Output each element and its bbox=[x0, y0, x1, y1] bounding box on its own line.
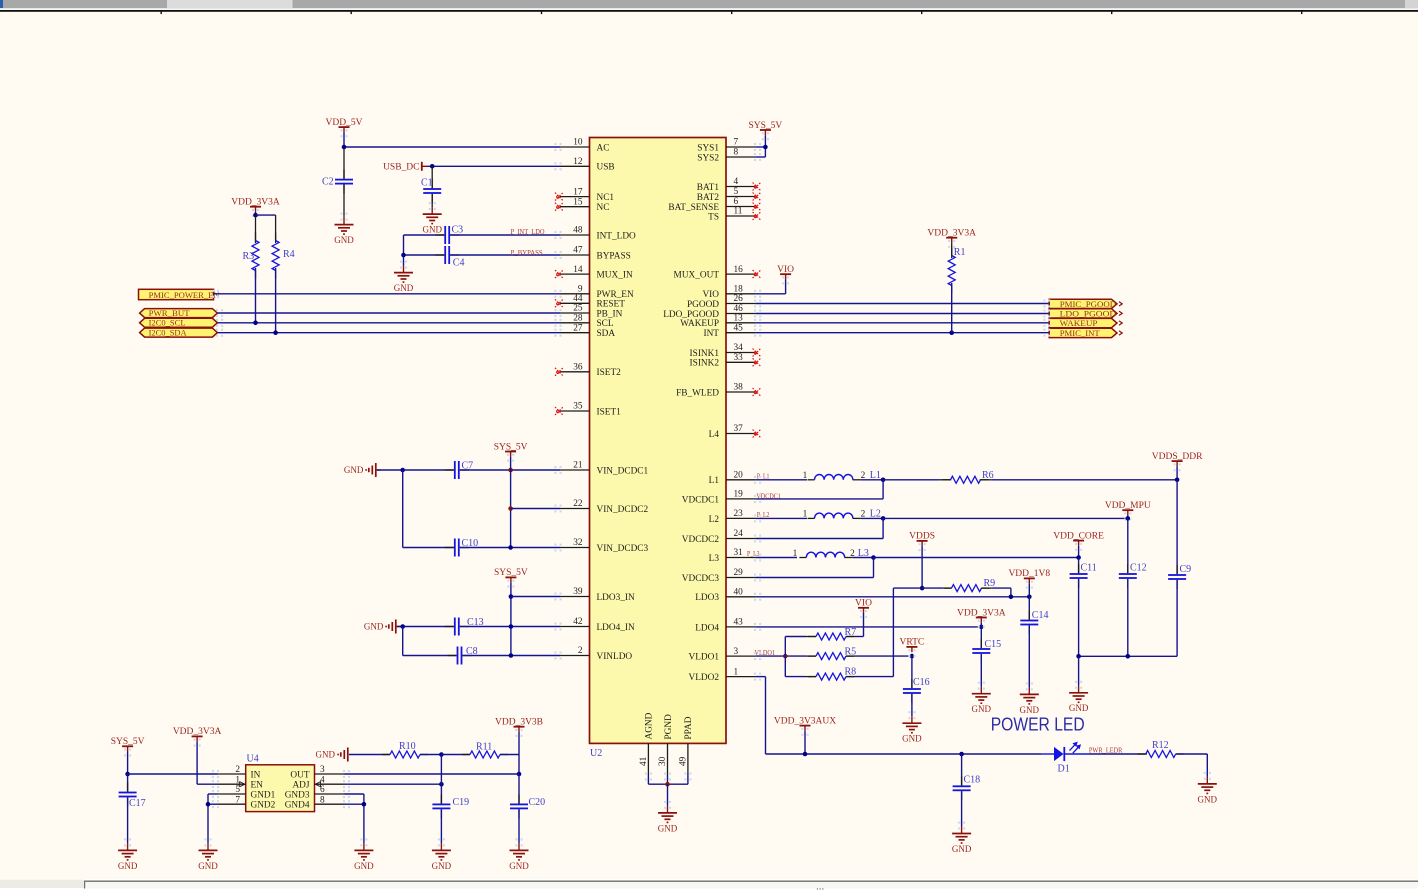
pin 48 INT_LDO bbox=[560, 234, 590, 236]
svg-text:WAKEUP: WAKEUP bbox=[1060, 318, 1098, 328]
wire VDDS_DDR rail bbox=[991, 479, 1177, 481]
svg-text:11: 11 bbox=[734, 207, 743, 217]
wire INT to port bbox=[756, 332, 1050, 334]
wire bbox=[404, 254, 445, 256]
power port VDD_MPU bbox=[1124, 512, 1131, 520]
ground below C16 bbox=[908, 711, 915, 719]
node C4 tap bbox=[401, 253, 406, 258]
wire bbox=[197, 783, 217, 785]
pin 42 LDO4_IN bbox=[560, 626, 590, 628]
wire bbox=[377, 469, 403, 471]
ground below C15 bbox=[978, 682, 985, 690]
no-ERC marker bbox=[753, 270, 761, 278]
wire bbox=[1028, 597, 1030, 620]
svg-text:36: 36 bbox=[573, 363, 583, 373]
svg-text:VINLDO: VINLDO bbox=[597, 652, 633, 662]
svg-text:7: 7 bbox=[235, 795, 240, 805]
svg-text:VDD_5V: VDD_5V bbox=[326, 118, 363, 128]
wire bbox=[403, 655, 457, 657]
svg-text:VDD_3V3A: VDD_3V3A bbox=[231, 198, 280, 208]
pin 49 PPAD bbox=[687, 743, 689, 774]
svg-text:1: 1 bbox=[793, 549, 798, 559]
svg-text:R12: R12 bbox=[1152, 740, 1169, 751]
svg-text:SYS_5V: SYS_5V bbox=[494, 442, 528, 452]
svg-text:LDO4_IN: LDO4_IN bbox=[597, 623, 635, 633]
svg-text:VLDO1: VLDO1 bbox=[689, 653, 720, 663]
pin 18 VIO bbox=[726, 293, 756, 295]
svg-text:I2C0_SCL: I2C0_SCL bbox=[149, 318, 186, 328]
node VIN_DCDC2 bbox=[508, 506, 513, 511]
svg-text:ISET2: ISET2 bbox=[597, 368, 622, 378]
pin 9 PWR_EN bbox=[560, 293, 590, 295]
svg-text:R3: R3 bbox=[243, 251, 255, 262]
wire R12 to ground bbox=[1206, 754, 1208, 777]
wire bbox=[992, 587, 1011, 589]
svg-text:VDD_3V3A: VDD_3V3A bbox=[927, 229, 976, 239]
svg-text:32: 32 bbox=[573, 538, 583, 548]
wire bbox=[1028, 625, 1030, 687]
wire bbox=[785, 676, 806, 678]
wire bbox=[420, 754, 441, 756]
node GND4 bbox=[362, 802, 367, 807]
node LDO4_IN bbox=[509, 624, 514, 629]
svg-text:4: 4 bbox=[734, 177, 739, 187]
svg-text:R4: R4 bbox=[283, 249, 295, 260]
svg-text:L1: L1 bbox=[709, 476, 720, 486]
svg-text:25: 25 bbox=[573, 304, 583, 314]
svg-text:VDDS: VDDS bbox=[909, 532, 935, 542]
power port SYS_5V bbox=[507, 454, 514, 462]
svg-text:GND2: GND2 bbox=[251, 801, 276, 811]
wire bbox=[255, 212, 257, 215]
wire SYS_5V column bbox=[510, 457, 512, 548]
svg-text:L2: L2 bbox=[709, 515, 720, 525]
pin 35 ISET1 bbox=[560, 410, 590, 412]
svg-text:3: 3 bbox=[320, 765, 325, 775]
wire bbox=[275, 215, 277, 243]
svg-text:INT: INT bbox=[704, 329, 720, 339]
svg-text:SYS1: SYS1 bbox=[697, 143, 719, 153]
svg-text:C2: C2 bbox=[322, 176, 334, 187]
svg-text:3: 3 bbox=[734, 647, 739, 657]
wire WAKEUP to port bbox=[756, 322, 1050, 324]
power port VDD_1V8 bbox=[1026, 581, 1033, 589]
svg-text:9: 9 bbox=[578, 285, 583, 295]
ground for C3/C4 bbox=[400, 261, 407, 269]
node GND2 bbox=[206, 802, 211, 807]
wire bbox=[518, 809, 520, 843]
svg-text:EN: EN bbox=[251, 781, 264, 791]
capacitor C13 bbox=[445, 626, 454, 628]
wire R9-R8 connector bbox=[892, 588, 894, 677]
svg-text:R9: R9 bbox=[984, 578, 996, 589]
pin 23 L2 bbox=[726, 517, 756, 519]
port PMIC_INT bbox=[1049, 328, 1117, 337]
svg-text:1: 1 bbox=[803, 510, 808, 520]
svg-text:L2: L2 bbox=[870, 509, 881, 520]
node VIN_DCDC3 bbox=[508, 545, 513, 550]
svg-text:18: 18 bbox=[734, 285, 744, 295]
port LDO_PGOOD bbox=[1049, 309, 1117, 318]
svg-text:BAT_SENSE: BAT_SENSE bbox=[668, 203, 719, 213]
node VRTC bbox=[910, 654, 915, 659]
pin 1 VLDO2 bbox=[726, 676, 756, 678]
svg-text:42: 42 bbox=[573, 617, 583, 627]
wire bbox=[397, 626, 454, 628]
no-ERC marker bbox=[753, 349, 761, 357]
pin 40 LDO3 bbox=[726, 596, 756, 598]
node VDD_3V3AUX bbox=[803, 752, 808, 757]
svg-text:LDO4: LDO4 bbox=[695, 623, 719, 633]
port I2C0_SDA bbox=[140, 328, 218, 337]
svg-text:USB_DC: USB_DC bbox=[383, 163, 419, 173]
no-ERC marker bbox=[555, 203, 563, 211]
pin 3 OUT U4 bbox=[315, 773, 345, 775]
svg-text:1: 1 bbox=[734, 667, 739, 677]
svg-text:GND4: GND4 bbox=[285, 801, 310, 811]
node VDDS_DDR bbox=[1175, 478, 1180, 483]
svg-text:17: 17 bbox=[573, 187, 583, 197]
bottom panel strip bbox=[0, 879, 1418, 894]
wire bbox=[1079, 655, 1178, 657]
svg-text:AGND: AGND bbox=[645, 712, 655, 739]
wire bbox=[893, 587, 943, 589]
svg-text:41: 41 bbox=[639, 756, 649, 766]
node USB_DC bbox=[430, 164, 435, 169]
svg-text:PWR_EN: PWR_EN bbox=[597, 290, 634, 300]
wire VIO pin bbox=[756, 293, 786, 295]
svg-text:PMIC_PGOOD: PMIC_PGOOD bbox=[1060, 299, 1117, 309]
wire bbox=[861, 479, 884, 481]
svg-text:34: 34 bbox=[734, 343, 744, 353]
wire bbox=[961, 754, 963, 785]
svg-text:ISET1: ISET1 bbox=[597, 407, 622, 417]
pin 7 GND2 U4 bbox=[218, 803, 246, 805]
pin 24 VDCDC2 bbox=[726, 538, 756, 540]
svg-text:LDO3_IN: LDO3_IN bbox=[597, 593, 635, 603]
pin 6 GND3 U4 bbox=[315, 793, 345, 795]
wire bbox=[1176, 480, 1178, 574]
power port VDD_3V3AUX bbox=[801, 728, 808, 736]
node R3/R4 top bbox=[253, 213, 258, 218]
svg-text:POWER LED: POWER LED bbox=[991, 713, 1085, 734]
wire bbox=[911, 694, 913, 716]
no-ERC marker bbox=[555, 368, 563, 376]
no-ERC marker bbox=[555, 299, 563, 307]
ground below C2 bbox=[340, 213, 347, 221]
wire bbox=[785, 279, 787, 293]
node C17/IN bbox=[125, 772, 130, 777]
svg-text:BAT2: BAT2 bbox=[697, 193, 720, 203]
wire bbox=[882, 518, 884, 538]
svg-text:2: 2 bbox=[861, 471, 866, 481]
svg-text:C1: C1 bbox=[421, 178, 433, 189]
node SCL/R3 bbox=[253, 321, 258, 326]
wire bbox=[874, 557, 1079, 559]
svg-text:L3: L3 bbox=[709, 554, 720, 564]
svg-text:PB_IN: PB_IN bbox=[597, 309, 623, 319]
wire bbox=[256, 214, 276, 216]
svg-text:GND1: GND1 bbox=[251, 790, 276, 800]
svg-text:SCL: SCL bbox=[597, 319, 614, 329]
wire bbox=[855, 655, 912, 657]
pin 11 TS bbox=[726, 215, 756, 217]
svg-text:VDCDC2: VDCDC2 bbox=[682, 535, 720, 545]
pin 12 USB bbox=[560, 165, 590, 167]
resistor R5 bbox=[806, 655, 816, 657]
wire VINLDO bbox=[463, 655, 561, 657]
power port VDD_3V3A bbox=[978, 620, 985, 628]
svg-text:L1: L1 bbox=[870, 470, 881, 481]
svg-text:R6: R6 bbox=[982, 470, 994, 481]
wire PWR_BUT to PB_IN bbox=[217, 312, 560, 314]
wire bbox=[756, 655, 806, 657]
svg-text:MUX_OUT: MUX_OUT bbox=[674, 271, 720, 281]
svg-text:43: 43 bbox=[734, 618, 744, 628]
pin 47 BYPASS bbox=[560, 254, 590, 256]
svg-text:ADJ: ADJ bbox=[292, 781, 309, 791]
svg-text:1: 1 bbox=[803, 471, 808, 481]
pin 37 L4 bbox=[726, 433, 756, 435]
node ADJ bbox=[439, 782, 444, 787]
wire bbox=[127, 797, 129, 843]
svg-text:NC: NC bbox=[597, 203, 610, 213]
wire bbox=[1089, 753, 1146, 755]
svg-text:R5: R5 bbox=[845, 647, 857, 658]
svg-text:GND3: GND3 bbox=[285, 790, 310, 800]
svg-text:C20: C20 bbox=[529, 797, 546, 808]
svg-text:INT_LDO: INT_LDO bbox=[597, 231, 637, 241]
svg-text:C12: C12 bbox=[1130, 563, 1147, 574]
node SYS bbox=[763, 145, 768, 150]
wire bbox=[1127, 518, 1129, 573]
svg-text:VDD_3V3AUX: VDD_3V3AUX bbox=[774, 716, 836, 726]
wire bbox=[961, 791, 963, 826]
wire bbox=[1078, 656, 1080, 686]
pin 41 AGND bbox=[647, 743, 649, 774]
wire LDO3_IN bbox=[511, 596, 560, 598]
wire bbox=[687, 775, 689, 785]
wire R4 to SDA bbox=[275, 268, 277, 333]
svg-text:37: 37 bbox=[734, 424, 744, 434]
wire bbox=[855, 636, 864, 638]
svg-text:PMIC_INT: PMIC_INT bbox=[1060, 328, 1101, 338]
svg-text:IN: IN bbox=[251, 770, 261, 780]
wire C7-C10 trunk bbox=[402, 470, 404, 548]
pin 16 MUX_OUT bbox=[726, 273, 756, 275]
svg-text:15: 15 bbox=[573, 197, 583, 207]
wire VDDS column bbox=[921, 546, 923, 588]
svg-text:45: 45 bbox=[734, 323, 744, 333]
svg-text:GND: GND bbox=[316, 750, 336, 760]
wire LDO_PGOOD to port bbox=[756, 313, 1050, 315]
wire bbox=[756, 557, 797, 559]
power port VIO bbox=[860, 610, 867, 618]
wire VDD_3V3B column bbox=[518, 732, 520, 774]
ground below C1 bbox=[429, 202, 436, 210]
ground below R12 bbox=[1204, 772, 1211, 780]
wire AC net bbox=[344, 146, 560, 148]
svg-text:U4: U4 bbox=[247, 754, 259, 765]
pin 29 VDCDC3 bbox=[726, 577, 756, 579]
wire bbox=[764, 135, 766, 157]
pin 43 LDO4 bbox=[726, 626, 756, 628]
node L1 out bbox=[881, 478, 886, 483]
power port VDD_5V bbox=[340, 129, 347, 137]
wire bbox=[951, 243, 953, 258]
wire I2C0_SDA to SDA bbox=[217, 332, 560, 334]
power port VRTC bbox=[908, 649, 915, 657]
node C18 bbox=[959, 752, 964, 757]
svg-text:D1: D1 bbox=[1058, 763, 1070, 774]
wire bbox=[403, 547, 454, 549]
ground below C18 bbox=[958, 822, 965, 830]
svg-text:31: 31 bbox=[734, 548, 744, 558]
no-ERC marker bbox=[555, 407, 563, 415]
wire bbox=[667, 784, 669, 806]
wire bbox=[349, 754, 390, 756]
pin 15 NC bbox=[560, 206, 590, 208]
svg-text:SYS2: SYS2 bbox=[697, 153, 719, 163]
wire bbox=[883, 479, 939, 481]
svg-text:14: 14 bbox=[573, 265, 583, 275]
svg-text:6: 6 bbox=[734, 197, 739, 207]
svg-text:8: 8 bbox=[734, 148, 739, 158]
svg-text:2: 2 bbox=[578, 646, 583, 656]
svg-text:U2: U2 bbox=[590, 748, 602, 759]
wire bbox=[1078, 579, 1080, 656]
node rail C12 bbox=[1126, 654, 1131, 659]
wire bbox=[343, 147, 345, 180]
svg-text:I2C0_SDA: I2C0_SDA bbox=[149, 328, 188, 338]
wire bbox=[765, 677, 767, 754]
svg-text:L3: L3 bbox=[858, 548, 869, 559]
svg-text:22: 22 bbox=[573, 499, 583, 509]
wire PMIC_POWER_EN to PWR_EN bbox=[214, 293, 561, 295]
no-ERC marker bbox=[753, 358, 761, 366]
no-ERC marker bbox=[753, 203, 761, 211]
node SYS_5V/VIN_DCDC1 bbox=[508, 468, 513, 473]
svg-text:21: 21 bbox=[573, 461, 583, 471]
wire LDO4_IN bbox=[460, 626, 560, 628]
svg-text:C18: C18 bbox=[964, 775, 981, 786]
wire bbox=[345, 773, 520, 775]
pin 31 L3 bbox=[726, 557, 756, 559]
node OUT/VDD_3V3B bbox=[517, 772, 522, 777]
svg-text:C10: C10 bbox=[462, 538, 479, 549]
svg-text:VDD_1V8: VDD_1V8 bbox=[1008, 569, 1050, 579]
wire bbox=[756, 676, 766, 678]
svg-text:39: 39 bbox=[573, 587, 583, 597]
svg-text:BAT1: BAT1 bbox=[697, 183, 720, 193]
ground below U4 right bbox=[360, 838, 367, 846]
svg-text:C15: C15 bbox=[985, 639, 1002, 650]
pin 2 VINLDO bbox=[560, 655, 590, 657]
wire bbox=[345, 783, 442, 785]
svg-text:20: 20 bbox=[734, 471, 744, 481]
pin 22 VIN_DCDC2 bbox=[560, 508, 590, 510]
wire bbox=[1078, 546, 1080, 558]
wire bbox=[208, 793, 218, 795]
power port VDD_3V3B bbox=[515, 729, 522, 737]
wire bbox=[404, 234, 445, 236]
wire R1 to INT bbox=[951, 283, 953, 333]
wire bbox=[756, 498, 884, 500]
wire bbox=[343, 185, 345, 218]
wire bbox=[980, 623, 982, 627]
svg-text:R10: R10 bbox=[399, 741, 416, 752]
svg-text:SDA: SDA bbox=[597, 329, 616, 339]
pin 7 SYS1 bbox=[726, 146, 756, 148]
no-ERC marker bbox=[753, 183, 761, 191]
pin 8 SYS2 bbox=[726, 156, 756, 158]
pin 38 FB_WLED bbox=[726, 391, 756, 393]
svg-text:PWR_BUT: PWR_BUT bbox=[149, 308, 191, 318]
wire bbox=[431, 166, 433, 189]
wire bbox=[440, 755, 442, 804]
wire bbox=[855, 676, 893, 678]
ground below C19 bbox=[438, 838, 445, 846]
pin 13 WAKEUP bbox=[726, 322, 756, 324]
wire bbox=[1127, 515, 1129, 518]
pin arrow EN bbox=[238, 782, 246, 787]
svg-text:2: 2 bbox=[861, 510, 866, 520]
svg-text:48: 48 bbox=[573, 226, 583, 236]
svg-text:40: 40 bbox=[734, 588, 744, 598]
svg-text:C17: C17 bbox=[129, 798, 146, 809]
pin 21 VIN_DCDC1 bbox=[560, 469, 590, 471]
wire bbox=[756, 626, 982, 628]
svg-text:VDD_3V3B: VDD_3V3B bbox=[495, 718, 543, 728]
node VLDO1 bracket bbox=[783, 654, 788, 659]
wire bbox=[255, 215, 257, 243]
node VDD_5V/AC bbox=[342, 145, 347, 150]
wire bbox=[127, 774, 129, 792]
pin 5 GND1 U4 bbox=[218, 793, 246, 795]
top toolbar strip bbox=[0, 0, 1418, 10]
wire bbox=[1176, 580, 1178, 656]
wire bbox=[883, 517, 1128, 519]
wire bbox=[1176, 466, 1178, 480]
svg-text:8: 8 bbox=[320, 795, 325, 805]
node VDD_MPU bbox=[1126, 516, 1131, 521]
svg-text:ISINK1: ISINK1 bbox=[690, 349, 720, 359]
pin arrow ADJ bbox=[315, 782, 323, 787]
svg-text:29: 29 bbox=[734, 568, 744, 578]
svg-text:P_L1: P_L1 bbox=[757, 473, 770, 480]
pin 25 PB_IN bbox=[560, 312, 590, 314]
wire bbox=[518, 774, 520, 804]
port PMIC_POWER_EN bbox=[139, 289, 214, 299]
svg-text:47: 47 bbox=[573, 246, 583, 256]
svg-text:VIO: VIO bbox=[855, 599, 872, 609]
svg-text:SYS_5V: SYS_5V bbox=[111, 737, 145, 747]
ic U4 body bbox=[246, 765, 315, 812]
wire bbox=[852, 557, 873, 559]
svg-text:VLDO1: VLDO1 bbox=[755, 650, 776, 657]
pin 32 VIN_DCDC3 bbox=[560, 547, 590, 549]
wire bbox=[207, 794, 209, 843]
wire bbox=[873, 558, 875, 578]
svg-text:C19: C19 bbox=[453, 797, 470, 808]
svg-text:PPAD: PPAD bbox=[684, 716, 694, 739]
pin 10 AC bbox=[560, 146, 590, 148]
wire bbox=[648, 783, 688, 785]
pin 30 PGND bbox=[667, 743, 669, 774]
wire bbox=[343, 132, 345, 147]
svg-text:VLDO2: VLDO2 bbox=[689, 673, 720, 683]
svg-text:FB_WLED: FB_WLED bbox=[676, 388, 719, 398]
